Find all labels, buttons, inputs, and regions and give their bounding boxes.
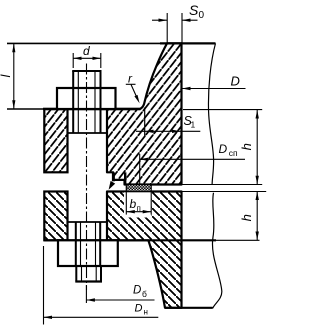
upper h extension bbox=[183, 109, 262, 111]
svg-text:п: п bbox=[137, 204, 141, 213]
svg-text:S: S bbox=[189, 2, 199, 18]
leader arrowhead bbox=[109, 181, 116, 190]
break line upper pipe bbox=[208, 43, 215, 184]
svg-text:D: D bbox=[219, 142, 228, 156]
svg-text:1: 1 bbox=[191, 119, 196, 129]
step edge at raised face bbox=[124, 172, 126, 184]
svg-text:d: d bbox=[83, 44, 90, 58]
upper flange left block bbox=[44, 109, 67, 172]
stud upper thread bbox=[68, 71, 107, 133]
break line lower pipe bbox=[212, 193, 221, 309]
gasket bbox=[126, 185, 151, 192]
dimension S1 bbox=[136, 108, 200, 136]
svg-text:D: D bbox=[133, 285, 141, 297]
pipe cut top line bbox=[7, 42, 160, 44]
svg-text:h: h bbox=[239, 214, 254, 221]
lower flange bottom line bbox=[44, 239, 216, 241]
centerline of stud bbox=[86, 64, 88, 291]
top nut bbox=[57, 88, 116, 109]
dimension Dcp bbox=[140, 142, 245, 184]
step face line near gasket bbox=[113, 179, 125, 181]
dimension l bbox=[0, 43, 15, 109]
dimension Db bbox=[86, 285, 154, 304]
dimension bp bbox=[124, 192, 152, 218]
leader bar at sealing face bbox=[112, 173, 115, 182]
svg-text:сп: сп bbox=[229, 148, 238, 158]
flange top surface line bbox=[7, 108, 44, 110]
svg-text:b: b bbox=[130, 197, 137, 211]
pipe end bottom line bbox=[165, 307, 213, 309]
lower flange right block with neck bbox=[107, 192, 182, 308]
dimension S0 bbox=[152, 2, 205, 43]
bottom nut bbox=[58, 240, 118, 266]
svg-text:h: h bbox=[239, 143, 254, 150]
dimension h lower bbox=[239, 192, 259, 241]
dimension h upper bbox=[239, 110, 259, 184]
svg-text:0: 0 bbox=[199, 10, 205, 21]
upper face extension bbox=[182, 184, 263, 186]
stud lower thread bbox=[69, 222, 108, 266]
stud bottom end bbox=[75, 266, 102, 282]
svg-text:н: н bbox=[144, 308, 148, 317]
dimension D bbox=[182, 74, 246, 91]
lower flange top extension bbox=[182, 191, 267, 193]
svg-text:б: б bbox=[142, 289, 147, 299]
dimension Dn bbox=[44, 246, 159, 325]
lower flange left block bbox=[44, 192, 67, 241]
radius r leader bbox=[126, 72, 140, 104]
svg-text:D: D bbox=[231, 74, 240, 89]
upper flange right block with neck bbox=[107, 43, 182, 184]
svg-text:D: D bbox=[135, 303, 143, 315]
dimension d bbox=[73, 44, 101, 68]
